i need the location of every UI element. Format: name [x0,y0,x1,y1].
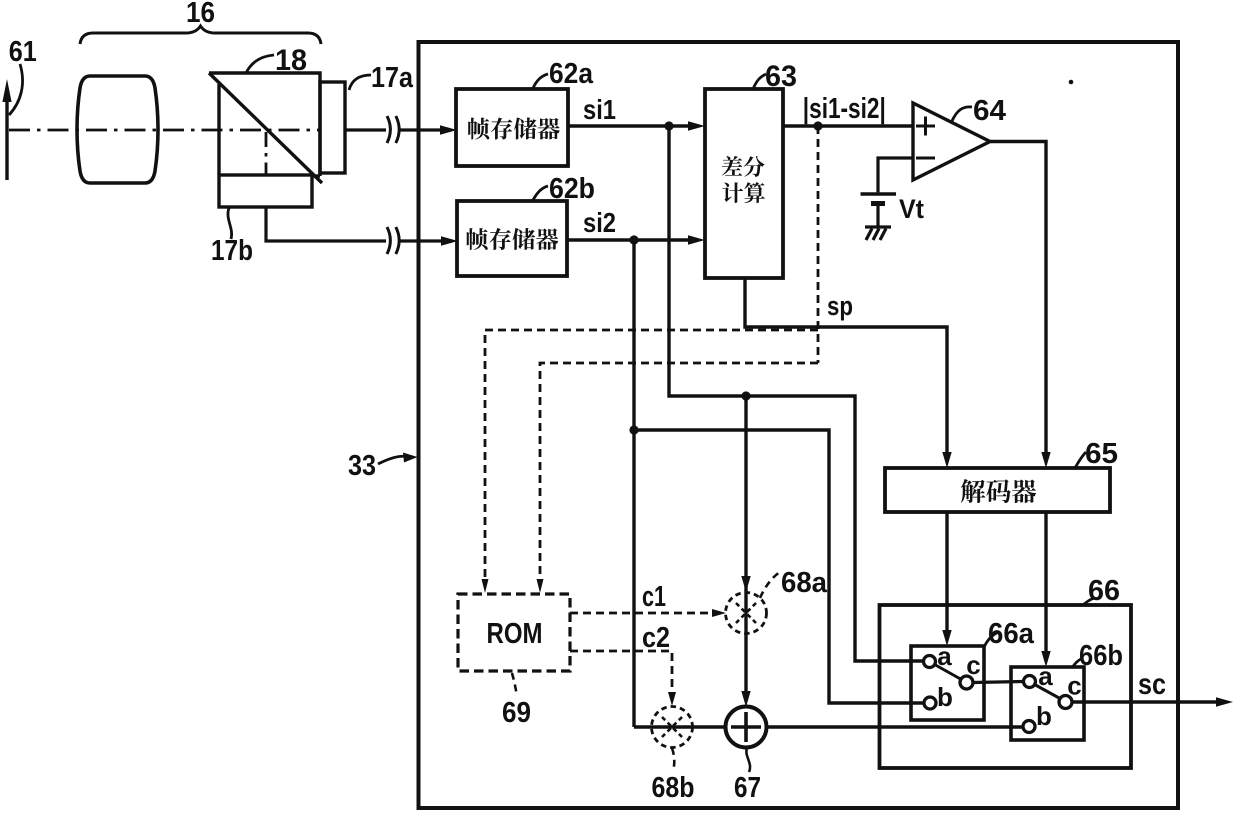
leader 18 [246,55,274,73]
svg-text:17a: 17a [371,62,414,94]
svg-text:64: 64 [973,95,1006,127]
frame memory 62a box [456,89,568,166]
svg-text:61: 61 [9,36,37,68]
svg-text:16: 16 [186,0,215,29]
svg-text:sc: sc [1138,668,1166,701]
wire sp (63 to decoder) [745,278,947,452]
leader 67 [746,748,750,772]
leader 68b [672,748,674,771]
switch 66a box [911,646,984,720]
svg-text:68b: 68b [652,772,695,804]
wire si2 branch down [632,240,635,727]
lens [77,76,158,183]
frame memory 62b text [467,228,559,250]
svg-text:67: 67 [734,772,761,804]
node si1 junction [664,121,673,130]
leader 63 [753,74,766,89]
wire sc output [1072,700,1224,703]
leader 65 [1075,452,1086,468]
svg-text:b: b [1036,701,1052,731]
arrow 33 to box [378,456,406,464]
leader 62a [533,74,548,88]
stray dot [1069,80,1074,85]
wire comparator minus input [878,158,913,192]
svg-text:62b: 62b [549,173,595,205]
wire 17b to 62b [266,207,442,241]
frame memory 62b box [457,201,567,276]
dashed wire c1 (ROM to 68a) [570,612,712,615]
svg-text:17b: 17b [211,235,253,267]
switch 66b terminal a [1024,676,1036,688]
prism 18 [209,73,322,183]
block 33 outer box [419,42,1179,808]
optical axis (dash-dot) [9,130,320,176]
node |si1-si2| junction [813,121,822,130]
svg-text:c: c [1067,671,1081,701]
object arrow 61 [2,79,11,180]
svg-text:68a: 68a [781,567,828,599]
node si1/68a junction [741,391,750,400]
svg-text:Vt: Vt [899,194,924,224]
svg-text:sp: sp [827,291,853,321]
wire decoder to switch 66a [945,512,948,630]
wire 17a to 62a [345,128,441,131]
leader 66b [1072,658,1083,668]
multiplier 68b [652,707,693,748]
switch 66b common c [1059,696,1072,709]
svg-text:66b: 66b [1079,640,1123,672]
wire si1 (62a to 63) [568,124,689,127]
dashed wire c2 (ROM to 68b) [570,651,672,693]
svg-text:ROM: ROM [487,618,543,650]
svg-text:si1: si1 [583,94,616,125]
svg-text:65: 65 [1085,438,1118,470]
multiplier 68a [726,593,767,634]
switch 66b box [1011,667,1084,740]
comparator 64 [913,103,990,180]
difference calculator 63 text [722,156,765,177]
break symbol (17b wire) [387,227,399,254]
wire decoder to switch 66b [1044,512,1047,651]
svg-text:69: 69 [502,697,531,729]
dashed wire from |si1-si2| node [817,126,820,363]
switch 66a terminal b [924,697,936,709]
leader 17b [228,208,232,239]
leader 62b [533,186,548,200]
switch 66a common c [960,676,973,689]
leader 17a [349,75,371,90]
sensor 17b [219,175,312,207]
decoder 65 box [885,468,1110,512]
wire 66a.c to 66b.a [973,682,1023,683]
switch 66a terminal a [924,656,936,668]
wire si1 into multiplier 68a and adder 67 [744,396,747,696]
node si2/66a junction [629,425,638,434]
adder 67 [726,707,767,748]
dashed wire to ROM input 2 [540,363,818,580]
wire 63 to comparator [783,124,913,127]
svg-text:|si1-si2|: |si1-si2| [803,93,886,125]
switch 66b terminal b [1023,721,1035,733]
switch block 66 box [880,605,1132,768]
ROM 69 box [458,594,570,671]
brace 16 [80,26,321,44]
node si2 junction [629,235,638,244]
svg-text:66: 66 [1088,575,1120,607]
svg-text:63: 63 [765,60,797,93]
ground [865,227,891,240]
svg-text:c: c [966,650,980,680]
switch 66b lever [1036,685,1061,699]
leader 66 [1082,598,1094,606]
battery Vt [861,194,897,204]
wire si1 branch to switch 66a [669,126,923,661]
svg-text:c1: c1 [642,581,666,613]
dashed wire to ROM input 1 [485,330,818,580]
leader 66a [984,632,999,647]
leader 64 [952,107,972,121]
leader 68a [760,572,780,598]
svg-text:b: b [937,682,953,712]
switch 66a lever [936,665,961,679]
frame memory 62a text [468,117,560,139]
wire si2 to adder via 68b [634,725,726,728]
wire si2 (62b to 63) [567,238,689,241]
sensor 17a [320,82,345,173]
wire adder output to 66b [767,725,1023,728]
wire comparator output to decoder [990,142,1046,453]
wire battery to ground [876,206,879,227]
decoder 65 text [961,479,1036,503]
svg-text:33: 33 [348,450,376,482]
leader 69 [512,673,517,696]
svg-text:c2: c2 [642,622,670,654]
svg-text:si2: si2 [583,207,616,238]
leader 61 [9,64,23,115]
difference calculator 63 box [705,89,783,278]
wire si2 branch to switch 66a [634,430,924,703]
break symbol (17a wire) [387,116,399,143]
svg-text:18: 18 [275,44,307,77]
svg-text:62a: 62a [549,58,594,90]
